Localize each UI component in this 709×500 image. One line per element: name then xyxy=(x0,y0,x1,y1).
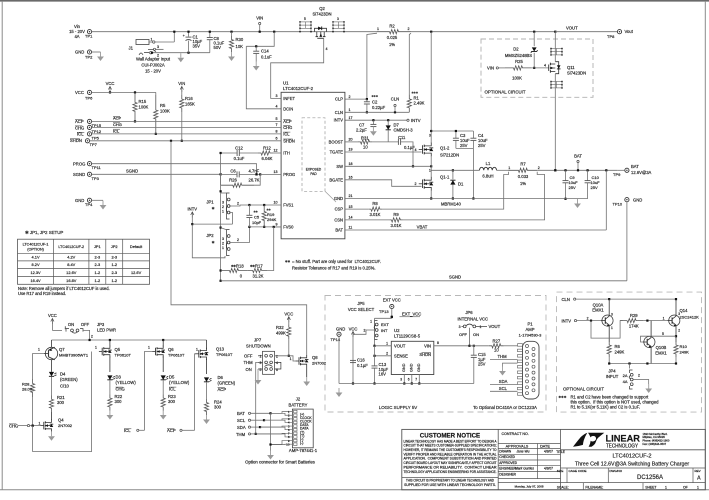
svg-text:1: 1 xyxy=(148,345,150,349)
svg-text:TP10: TP10 xyxy=(613,201,623,206)
svg-text:D2: D2 xyxy=(513,47,519,52)
svg-text:2-3: 2-3 xyxy=(95,255,101,260)
svg-text:4: 4 xyxy=(326,47,328,51)
svg-text:EXPOSED: EXPOSED xyxy=(306,168,322,172)
wire ICL row xyxy=(92,130,282,134)
svg-text:26.7K: 26.7K xyxy=(249,177,260,182)
svg-text:SENSE: SENSE xyxy=(394,353,408,358)
svg-text:INTERNAL VCC: INTERNAL VCC xyxy=(458,317,489,322)
svg-text:Q7: Q7 xyxy=(59,347,65,352)
svg-text:1-2: 1-2 xyxy=(95,270,101,275)
wire battery conn ladder xyxy=(257,410,293,451)
svg-text:13: 13 xyxy=(274,170,278,174)
transistor Q10B EMX1 xyxy=(641,321,677,364)
wire Q7 base xyxy=(33,354,44,380)
wire SHDN to JP7 xyxy=(171,141,307,355)
wire Q2 gate to INFET xyxy=(271,38,328,98)
svg-text:1: 1 xyxy=(386,342,388,346)
svg-text:VIN: VIN xyxy=(487,66,494,71)
svg-text:0.033: 0.033 xyxy=(518,174,529,179)
svg-text:1: 1 xyxy=(611,326,613,330)
capacitor C5 xyxy=(246,205,261,227)
svg-text:INPUT: INPUT xyxy=(606,374,619,379)
svg-text:1: 1 xyxy=(508,166,510,170)
svg-text:BAT: BAT xyxy=(237,411,245,416)
svg-text:LTC4012CUF-1: LTC4012CUF-1 xyxy=(23,243,49,247)
svg-text:THM: THM xyxy=(244,360,254,365)
node THM p1 xyxy=(490,354,518,360)
svg-text:✱✱✱: ✱✱✱ xyxy=(372,94,379,98)
wire SGND vertical xyxy=(220,152,222,282)
wire TGATE xyxy=(345,148,422,152)
U1 pin names xyxy=(283,96,343,233)
resistor R17 xyxy=(247,227,273,279)
node VCC logic xyxy=(349,327,358,385)
svg-text:SHEET: SHEET xyxy=(645,485,656,489)
svg-text:300: 300 xyxy=(115,399,123,404)
svg-text:R16: R16 xyxy=(185,96,193,101)
svg-text:BOOST: BOOST xyxy=(329,139,344,144)
ground at battery xyxy=(574,199,581,208)
svg-text:2SC2412K: 2SC2412K xyxy=(680,315,700,320)
wire CSP xyxy=(345,205,369,209)
svg-text:GND: GND xyxy=(417,363,421,372)
svg-text:BGATE: BGATE xyxy=(329,177,343,182)
transistor Q14 2SC2412K xyxy=(668,298,700,342)
wire VBAT xyxy=(345,170,606,230)
svg-text:17: 17 xyxy=(349,116,353,120)
capacitor C13 xyxy=(372,362,389,385)
wire VOUT rail xyxy=(555,26,617,32)
note optional circuit right xyxy=(563,387,604,392)
note option connector xyxy=(245,460,315,465)
testpoint TP6 VCC xyxy=(75,90,93,101)
wire R2 kelvin CLN xyxy=(409,33,411,94)
transistor Q1-1 Si7212DN xyxy=(419,169,450,191)
svg-text:SGND: SGND xyxy=(73,172,85,177)
jumper JP4 INPUT xyxy=(606,364,649,390)
capacitor C15 xyxy=(471,346,487,384)
svg-text:R8: R8 xyxy=(372,201,378,206)
svg-text:SUPPLIED FOR USE WITH LINEAR T: SUPPLIED FOR USE WITH LINEAR TECHNOLOGY … xyxy=(404,483,496,487)
ground at R24 xyxy=(203,415,210,424)
svg-text:CUI-PJ002A: CUI-PJ002A xyxy=(141,63,164,68)
svg-text:U1: U1 xyxy=(283,81,289,86)
svg-text:R27: R27 xyxy=(493,339,501,344)
svg-text:Wall Adapter Input: Wall Adapter Input xyxy=(136,57,171,62)
wire Q11 source up xyxy=(551,32,555,88)
note option asterisks xyxy=(559,394,660,409)
wire Q11 drain to BAT rail xyxy=(554,74,556,172)
svg-text:R32: R32 xyxy=(276,325,284,330)
wire JP7 pin2 to Q8 gate xyxy=(275,356,297,361)
svg-text:4: 4 xyxy=(276,361,278,365)
svg-text:2-3: 2-3 xyxy=(111,255,117,260)
wire BOOST xyxy=(345,138,358,142)
wire FVS0 row xyxy=(221,223,282,228)
wire SHDN row xyxy=(90,137,282,142)
svg-text:12.6V@3A: 12.6V@3A xyxy=(631,170,652,175)
svg-text:6.8uH: 6.8uH xyxy=(482,174,493,179)
svg-text:BAT: BAT xyxy=(631,164,639,169)
wire BGATE xyxy=(345,176,422,187)
inductor L1 6.8uH xyxy=(480,161,497,179)
svg-text:PROG: PROG xyxy=(73,161,85,166)
wire INTV pin17 xyxy=(345,116,407,121)
svg-text:Fax: (408)434-0507: Fax: (408)434-0507 xyxy=(643,442,667,446)
svg-text:4.7nF: 4.7nF xyxy=(249,168,260,173)
wire CLP xyxy=(345,95,368,100)
wire optional bottom rail xyxy=(608,362,677,364)
svg-text:1%: 1% xyxy=(520,181,526,186)
svg-text:R7: R7 xyxy=(520,161,526,166)
node INTV opt xyxy=(562,316,601,323)
svg-text:APPROVALS: APPROVALS xyxy=(506,444,529,448)
transistor Q13 TP0610T xyxy=(196,340,234,374)
svg-text:GND: GND xyxy=(633,198,642,203)
svg-text:100K: 100K xyxy=(160,109,170,114)
wire ICL to Q6 gate xyxy=(145,352,153,431)
wire U2 gnd pins xyxy=(400,375,420,385)
svg-text:Option connector for Smart Bat: Option connector for Smart Batteries xyxy=(245,460,315,465)
svg-text:3.01K: 3.01K xyxy=(391,223,402,228)
svg-text:EMX1: EMX1 xyxy=(592,308,604,313)
ground at TP2 xyxy=(97,52,104,61)
svg-text:2: 2 xyxy=(408,27,410,31)
svg-text:R25: R25 xyxy=(515,59,523,64)
svg-text:JP1: JP1 xyxy=(206,200,214,205)
svg-text:JP5: JP5 xyxy=(357,301,365,306)
svg-text:3: 3 xyxy=(611,313,613,317)
svg-text:TGATE: TGATE xyxy=(330,150,344,155)
jumper JP6 INTERNAL VCC xyxy=(458,310,501,347)
svg-text:TP3: TP3 xyxy=(92,176,100,181)
svg-text:DWG/NO: DWG/NO xyxy=(609,469,622,473)
resistor R6 xyxy=(607,342,624,364)
svg-text:1-2: 1-2 xyxy=(111,278,117,283)
svg-text:C16: C16 xyxy=(357,358,365,363)
testpoint TP10 GND xyxy=(613,198,643,207)
svg-text:7: 7 xyxy=(415,377,417,381)
svg-text:VCC: VCC xyxy=(284,311,293,316)
svg-text:1: 1 xyxy=(38,348,40,352)
svg-text:3: 3 xyxy=(222,200,224,204)
resistor R21 xyxy=(49,395,65,412)
table JP1 JP2 setup xyxy=(18,230,150,296)
svg-text:0.22µF: 0.22µF xyxy=(372,105,386,110)
svg-text:JP2: JP2 xyxy=(206,233,214,238)
svg-text:OFF: OFF xyxy=(459,332,468,337)
wire JP5 pin3 to VOUT xyxy=(373,340,375,347)
svg-text:Q10B: Q10B xyxy=(656,345,667,350)
ground at Q8 xyxy=(303,377,310,386)
ground at R30 xyxy=(228,52,235,61)
wire SGND from TP3 xyxy=(92,173,222,175)
svg-text:CSP: CSP xyxy=(335,207,344,212)
svg-text:0: 0 xyxy=(240,274,243,279)
svg-text:21: 21 xyxy=(349,194,353,198)
svg-text:25V: 25V xyxy=(478,362,486,367)
svg-text:DRAWN: DRAWN xyxy=(499,449,512,453)
svg-text:1-2: 1-2 xyxy=(111,262,117,267)
testpoint TP15 ACP xyxy=(75,116,122,128)
transistor Q8 2N7002 xyxy=(296,355,327,377)
transistor Q7 MMBT3906WT1 xyxy=(38,340,89,372)
svg-text:16.8V: 16.8V xyxy=(66,278,77,283)
svg-text:JP3: JP3 xyxy=(97,322,105,327)
svg-text:Default: Default xyxy=(130,244,143,249)
node BAT stub xyxy=(574,154,582,172)
svg-text:C/10: C/10 xyxy=(60,384,70,389)
node CHG input led xyxy=(9,423,41,428)
testpoint TP9 BAT xyxy=(613,164,652,177)
svg-text:6: 6 xyxy=(408,377,410,381)
resistor R28 xyxy=(22,379,35,427)
testpoint TP4 GND xyxy=(75,198,103,207)
svg-text:BAT: BAT xyxy=(574,154,582,159)
svg-text:AMP-787441-1: AMP-787441-1 xyxy=(289,448,318,453)
LED D6 GREEN ACP xyxy=(204,375,236,399)
wire top input rail xyxy=(92,31,377,33)
svg-text:TP5: TP5 xyxy=(92,135,100,140)
svg-text:VIN: VIN xyxy=(256,16,263,21)
svg-text:Q1-1: Q1-1 xyxy=(440,175,450,180)
svg-text:165K: 165K xyxy=(185,102,195,107)
capacitor C11 xyxy=(372,135,415,167)
svg-text:300: 300 xyxy=(214,405,222,410)
svg-text:MMBT3906WT1: MMBT3906WT1 xyxy=(59,353,89,358)
svg-text:PAD: PAD xyxy=(310,172,317,176)
ground at C14 xyxy=(253,62,260,71)
svg-text:SHUTDOWN: SHUTDOWN xyxy=(246,344,271,349)
svg-text:Use R17 and R19 instead.: Use R17 and R19 instead. xyxy=(18,291,66,296)
ground at JP4 xyxy=(645,384,652,393)
node GND TP14 xyxy=(331,327,346,384)
svg-text:A: A xyxy=(697,476,701,482)
svg-text:INTV: INTV xyxy=(411,118,421,123)
node SDA p1 xyxy=(490,379,518,385)
wire JP5 pin2 to VCC xyxy=(353,330,375,334)
svg-text:VOUT: VOUT xyxy=(489,324,501,329)
svg-text:25V: 25V xyxy=(591,185,598,190)
svg-text:10pF: 10pF xyxy=(252,220,262,225)
wire rail R2 to optional circuit xyxy=(411,31,556,33)
connector J1 Wall Adapter Input xyxy=(129,38,175,74)
ground at TP14 xyxy=(336,388,343,397)
ground at Q4 xyxy=(48,432,55,441)
svg-text:1: 1 xyxy=(377,27,379,31)
testpoint TP8 Vout xyxy=(607,29,634,39)
svg-text:CAGE CODE: CAGE CODE xyxy=(569,469,587,473)
svg-text:2: 2 xyxy=(222,242,224,246)
wire CSN xyxy=(345,216,389,220)
op-amp U1 LTC4012CUF-2 body xyxy=(281,81,345,239)
wire INTV to JP1 JP2 xyxy=(191,216,232,258)
svg-text:R9: R9 xyxy=(393,212,399,217)
svg-text:CLN: CLN xyxy=(335,110,343,115)
wire CSN kelvin xyxy=(403,172,545,220)
svg-text:4A: 4A xyxy=(623,379,628,384)
node SDA bat conn xyxy=(237,425,261,430)
svg-text:3.01K: 3.01K xyxy=(370,212,381,217)
testpoint TP3 SGND xyxy=(73,168,138,181)
wire LED PWR rail xyxy=(52,339,207,341)
svg-text:VCC: VCC xyxy=(48,313,57,318)
svg-text:8.4V: 8.4V xyxy=(67,262,75,267)
svg-text:ITH: ITH xyxy=(283,151,290,156)
svg-text:CHECKED: CHECKED xyxy=(499,455,515,459)
svg-text:1: 1 xyxy=(222,210,224,214)
svg-text:249K: 249K xyxy=(615,349,625,354)
resistor R1 xyxy=(407,91,424,113)
svg-text:INFET: INFET xyxy=(283,96,295,101)
svg-text:✱: ✱ xyxy=(212,207,215,211)
svg-text:INTV: INTV xyxy=(188,207,198,212)
svg-text:VOUT: VOUT xyxy=(394,343,406,348)
svg-text:5: 5 xyxy=(304,17,306,21)
jumper JP3 LED PWR xyxy=(52,322,116,340)
dashed box logic supply xyxy=(325,296,546,413)
svg-text:0.025: 0.025 xyxy=(387,35,398,40)
svg-text:JP1: JP1 xyxy=(94,244,101,249)
svg-text:R30: R30 xyxy=(236,37,244,42)
svg-text:12.3V: 12.3V xyxy=(30,270,41,275)
wire L1 to R7 xyxy=(497,169,509,171)
svg-text:R12: R12 xyxy=(263,145,271,150)
svg-text:Vout: Vout xyxy=(625,29,634,34)
node THM bat conn xyxy=(236,432,257,437)
svg-text:4/3/07: 4/3/07 xyxy=(544,449,553,453)
svg-text:U2: U2 xyxy=(394,328,400,333)
jumper JP7 SHUTDOWN xyxy=(244,338,281,375)
svg-text:R2: R2 xyxy=(389,24,395,29)
svg-text:3: 3 xyxy=(678,312,680,316)
svg-text:AMP: AMP xyxy=(525,327,534,332)
svg-text:25V: 25V xyxy=(569,185,576,190)
svg-text:JP7: JP7 xyxy=(254,338,262,343)
capacitor C14 xyxy=(253,45,272,61)
svg-text:TP0610T: TP0610T xyxy=(168,352,185,357)
node BAT bat conn xyxy=(237,411,272,416)
resistor R19 xyxy=(262,205,277,228)
svg-text:9: 9 xyxy=(276,223,278,227)
svg-text:0.1uF: 0.1uF xyxy=(261,55,272,60)
svg-text:SCALE:: SCALE: xyxy=(557,485,569,489)
svg-text:2.2µF: 2.2µF xyxy=(356,128,367,133)
svg-text:LED PWR: LED PWR xyxy=(97,328,116,333)
svg-text:1: 1 xyxy=(196,348,198,352)
svg-text:25V: 25V xyxy=(460,143,468,148)
svg-text:4.1V: 4.1V xyxy=(32,255,40,260)
svg-text:ON: ON xyxy=(473,332,479,337)
svg-text:THM: THM xyxy=(498,354,508,359)
svg-text:J2: J2 xyxy=(296,397,301,402)
resistor R23 xyxy=(161,394,176,411)
svg-text:VCC: VCC xyxy=(75,90,84,95)
svg-text:300: 300 xyxy=(168,399,176,404)
svg-text:R1 to 5.1K(or 5.11K) and C2 is: R1 to 5.1K(or 5.11K) and C2 is 0.1uF. xyxy=(571,405,641,410)
svg-text:GND: GND xyxy=(410,363,414,372)
node INTV right xyxy=(407,118,421,123)
svg-text:OFF: OFF xyxy=(244,353,253,358)
svg-text:R6: R6 xyxy=(615,344,621,349)
wire INTV detour to R29 xyxy=(591,321,623,339)
svg-text:5: 5 xyxy=(276,117,278,121)
svg-text:TP1: TP1 xyxy=(85,34,93,39)
svg-text:35V: 35V xyxy=(193,44,201,49)
svg-text:SW: SW xyxy=(336,164,343,169)
jumper JP5 VCC SELECT xyxy=(348,301,389,340)
node VCC led xyxy=(48,313,57,330)
svg-text:GND: GND xyxy=(75,198,84,203)
transistor Q11 Si7423DN xyxy=(549,48,586,89)
wire J1 pin1 to rail xyxy=(173,31,175,42)
svg-text:12: 12 xyxy=(274,149,278,153)
svg-text:R10: R10 xyxy=(680,344,688,349)
svg-text:ON: ON xyxy=(246,367,252,372)
wire JP1 pin1 to INTV xyxy=(229,213,233,225)
svg-text:OF: OF xyxy=(683,485,688,489)
note logic supply xyxy=(379,405,417,410)
capacitor C16 xyxy=(350,358,368,369)
svg-text:APPROVED: APPROVED xyxy=(499,461,517,465)
svg-text:SGND: SGND xyxy=(126,168,138,173)
svg-text:D3: D3 xyxy=(116,375,122,380)
wire BAT rail xyxy=(537,169,617,171)
testpoint TP5 ICL xyxy=(77,128,120,140)
svg-text:= No stuff. Part are only used: = No stuff. Part are only used for LTC40… xyxy=(292,259,381,264)
svg-text:Resistor Tolerance of R17 and: Resistor Tolerance of R17 and R19 is 0.2… xyxy=(292,266,376,271)
svg-text:4A: 4A xyxy=(74,34,79,39)
svg-text:VIN: VIN xyxy=(178,81,185,86)
svg-text:7: 7 xyxy=(276,123,278,127)
svg-text:BAT: BAT xyxy=(335,228,343,233)
svg-text:TECHNOLOGY APPLICATIONS ENGINE: TECHNOLOGY APPLICATIONS ENGINEERING FOR … xyxy=(404,470,497,474)
transistor Q10A EMX1 xyxy=(592,299,613,342)
svg-text:TP8: TP8 xyxy=(607,34,615,39)
wire PROG from TP11 xyxy=(92,164,258,176)
svg-text:ON: ON xyxy=(68,322,74,327)
capacitor C8 xyxy=(207,31,225,53)
svg-text:SCL: SCL xyxy=(237,418,246,423)
svg-text:DESIGNER: DESIGNER xyxy=(499,473,516,477)
svg-text:249K: 249K xyxy=(680,349,690,354)
wire PROG pin xyxy=(255,170,281,175)
svg-text:LTC4012CUF-2: LTC4012CUF-2 xyxy=(58,245,84,249)
svg-text:JP2: JP2 xyxy=(111,244,118,249)
ground at R22 xyxy=(107,411,114,420)
svg-text:10: 10 xyxy=(286,442,290,446)
svg-text:TITLE: TITLE xyxy=(556,450,565,454)
svg-text:12.6V: 12.6V xyxy=(66,270,77,275)
node VIN optional xyxy=(487,66,505,71)
svg-text:P1: P1 xyxy=(527,322,533,327)
svg-text:✱✱: ✱✱ xyxy=(267,208,272,212)
op-amp U2 LT1129CS8-5 xyxy=(391,328,434,375)
wire U2 VOUT pin1 xyxy=(375,342,392,346)
svg-text:4/3/07: 4/3/07 xyxy=(544,467,553,471)
svg-text:1-2: 1-2 xyxy=(95,278,101,283)
svg-text:50V: 50V xyxy=(214,45,222,50)
svg-text:2: 2 xyxy=(638,374,640,378)
svg-text:VBAT: VBAT xyxy=(417,225,428,230)
svg-text:TECHNOLOGY: TECHNOLOGY xyxy=(606,443,638,449)
svg-text:Si7212DN: Si7212DN xyxy=(440,153,459,158)
svg-text:Three Cell 12.6V@3A Switching: Three Cell 12.6V@3A Switching Battery Ch… xyxy=(575,461,690,467)
svg-text:LT1129CS8-5: LT1129CS8-5 xyxy=(394,334,421,339)
svg-text:1: 1 xyxy=(665,485,667,489)
svg-text:GND: GND xyxy=(402,363,406,372)
